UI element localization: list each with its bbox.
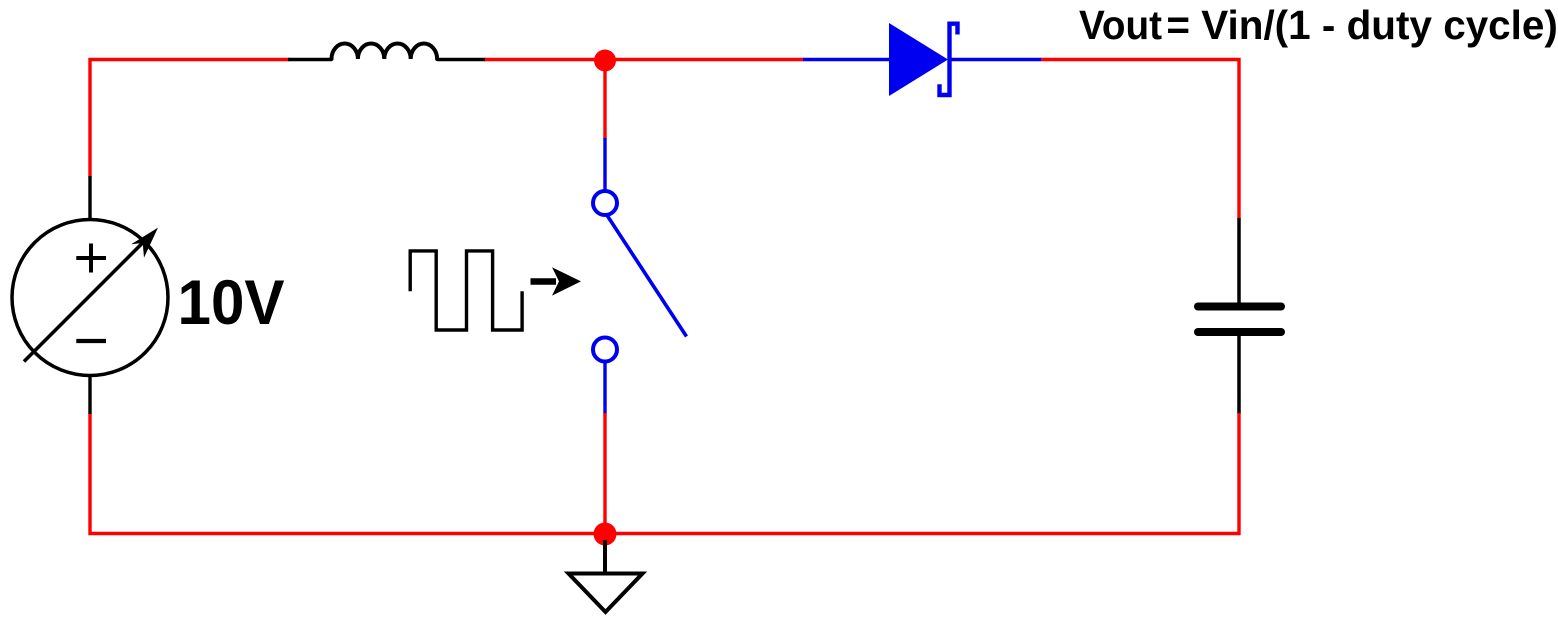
wire blue to diode anode — [803, 58, 890, 61]
arrow to switch — [531, 267, 582, 295]
wire red bottom loop — [90, 413, 1239, 534]
node bottom junction — [594, 523, 617, 546]
wire top-left red (corner to inductor area and down left side) — [90, 60, 290, 178]
wire black voltage source top lead — [88, 176, 91, 220]
wire blue from diode cathode — [948, 58, 1042, 61]
svg-text:10V: 10V — [178, 268, 285, 338]
wire red down from top junction toward switch — [603, 60, 606, 140]
inductor L1 — [332, 43, 438, 59]
node top junction — [594, 50, 616, 72]
wire black lead into inductor — [288, 58, 332, 61]
svg-text:Vout: Vout — [1079, 2, 1162, 48]
diode D1 (Schottky) — [889, 23, 958, 96]
ground — [569, 540, 643, 612]
wire black lead out of inductor — [437, 58, 486, 61]
voltage source V1 — [12, 220, 168, 376]
wire black voltage source bottom lead — [88, 375, 91, 414]
wire black from capacitor bottom — [1237, 335, 1241, 414]
wire red switch to bottom junction — [603, 413, 606, 534]
wire red from inductor to diode (through top junction) — [485, 58, 804, 61]
wire red top-right corner down right side — [1041, 60, 1239, 220]
svg-text:= Vin/(1 - duty cycle): = Vin/(1 - duty cycle) — [1166, 2, 1558, 48]
switch S1 — [593, 138, 687, 414]
square wave control symbol — [410, 251, 522, 330]
wire black to capacitor top — [1237, 218, 1241, 303]
capacitor C1 — [1198, 307, 1281, 333]
